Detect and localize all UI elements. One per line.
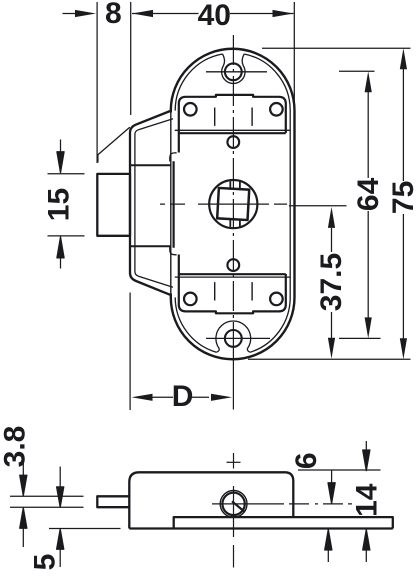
svg-text:14: 14: [350, 483, 383, 517]
ext line bolt tip: [96, 2, 98, 163]
bolt slot end wall: [173, 161, 175, 248]
dim 3.8 arrow up: [20, 508, 27, 547]
bottom screw hole ring: [225, 330, 242, 347]
top screw hole ring: [225, 63, 242, 80]
centerline cross tick: [227, 461, 241, 463]
svg-text:5: 5: [29, 554, 62, 571]
spindle hub outer: [220, 491, 247, 518]
dim 75 line: [402, 69, 404, 339]
top hole crosshair: [206, 71, 267, 73]
dim 75 top arrow: [400, 48, 407, 69]
dim 3.8 ext lines: [10, 496, 84, 507]
svg-text:37.5: 37.5: [315, 253, 348, 311]
dim 15 bottom arrow: [57, 237, 64, 269]
dim D line: [153, 396, 210, 398]
dim 64 ext lines: [339, 71, 381, 338]
dim 37.5 ext line: [289, 205, 347, 207]
base plate: [129, 517, 393, 528]
dim 64 bottom arrow: [365, 317, 372, 338]
dim 3.8 arrow down: [20, 456, 27, 496]
lock case stadium outline: [171, 49, 295, 359]
bolt slot bottom edge: [131, 245, 172, 247]
dim 14 arrow up: [363, 529, 370, 562]
plate upper rule thick: [179, 132, 286, 134]
bolt tongue side: [97, 496, 129, 507]
dim 6 arrow up: [325, 529, 332, 562]
housing nose face: [98, 127, 130, 162]
small circle above spindle: [227, 136, 239, 148]
top screw hole surround arc: [222, 54, 245, 84]
small circle below spindle: [227, 259, 239, 271]
dim 64 line: [367, 92, 369, 318]
dim 8 leader: [63, 13, 76, 15]
case inner seam line: [175, 54, 290, 352]
plate screw hole top-left: [184, 103, 197, 116]
case left side behind housing: [170, 113, 172, 294]
svg-text:40: 40: [198, 0, 231, 32]
plate screw hole bottom-right: [270, 293, 283, 306]
slot corner curl top: [170, 153, 177, 162]
plate screw hole top-right: [270, 103, 283, 116]
dim 37.5 top arrow: [328, 207, 335, 228]
dim 64 top arrow: [365, 71, 372, 92]
dim 40 line: [132, 13, 294, 15]
svg-text:64: 64: [352, 177, 385, 211]
svg-text:D: D: [172, 380, 194, 413]
dim 15 ext lines: [48, 174, 85, 236]
dim D left arrow: [132, 394, 153, 401]
svg-text:6: 6: [290, 452, 323, 469]
plate tick marks: [215, 108, 252, 301]
plate upper rule thin: [175, 129, 290, 131]
ext line case front: [130, 2, 132, 115]
spindle hub inner: [222, 493, 244, 515]
latch bolt: [97, 174, 130, 236]
dim 5 ext line: [49, 528, 121, 530]
plate lower rule thin: [175, 276, 290, 278]
spindle notch bars: [230, 181, 240, 227]
bolt slot top edge: [131, 164, 172, 166]
spindle square hole: [217, 188, 249, 220]
dim 40 left arrow: [132, 10, 153, 17]
spindle boss circle: [209, 180, 257, 228]
dim 5 arrow up: [57, 529, 64, 567]
dim 5 arrow down: [57, 467, 64, 508]
ext line case right: [293, 2, 295, 107]
dim 6 arrow down: [328, 470, 335, 504]
dim D right arrow: [211, 394, 232, 401]
centerline vertical side view: [233, 453, 235, 568]
dim 8 arrow: [75, 10, 96, 17]
bottom hole crosshair: [206, 337, 270, 339]
centerline vertical main view: [232, 35, 234, 348]
dim 37.5 line: [331, 228, 333, 338]
dim 14 arrow down: [363, 441, 370, 471]
spindle chord: [232, 501, 244, 511]
body outline: [129, 472, 293, 528]
dim 75 ext lines: [248, 48, 411, 359]
dim 37.5 bottom arrow: [328, 338, 335, 359]
dim 75 bottom arrow: [400, 338, 407, 359]
plate lower rule thick: [179, 273, 286, 275]
svg-text:75: 75: [387, 181, 420, 214]
side view horizontal centerline: [212, 503, 352, 505]
dim D ext line: [129, 293, 131, 411]
svg-text:15: 15: [43, 188, 76, 221]
svg-text:3.8: 3.8: [0, 426, 32, 468]
housing inner lines: [135, 119, 173, 287]
bottom screw hole surround arc: [216, 321, 251, 352]
latch housing wedge outline: [130, 111, 171, 295]
slot corner curl bottom: [170, 246, 177, 255]
dim 6-14 top ext line: [298, 469, 381, 471]
dim 40 right arrow: [273, 10, 294, 17]
plate screw hole bottom-left: [184, 293, 197, 306]
centerline horizontal main view: [160, 203, 287, 205]
mounting plate: [179, 95, 286, 313]
svg-text:8: 8: [105, 0, 122, 30]
dim 15 top arrow: [57, 140, 64, 173]
